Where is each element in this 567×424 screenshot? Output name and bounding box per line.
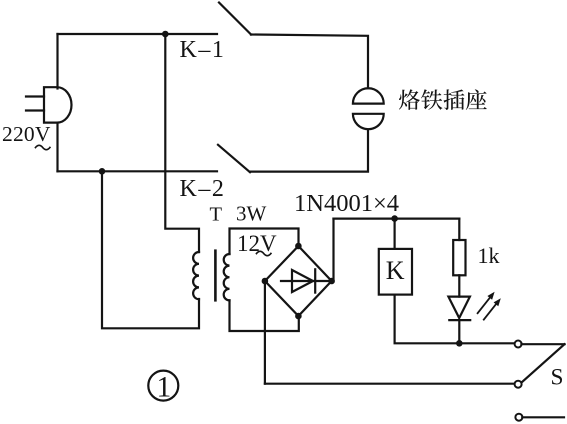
label 12V bbox=[237, 231, 277, 256]
resistor R1 1k body bbox=[453, 240, 465, 275]
transformer T core bbox=[214, 251, 217, 301]
bridge rectifier D1-D4 diamond bbox=[265, 246, 332, 316]
figure number circle 1 bbox=[148, 371, 178, 401]
wire S terminal 1 to pivot bbox=[521, 343, 564, 345]
svg-text:3W: 3W bbox=[236, 202, 267, 226]
switch K-1 blade bbox=[219, 3, 251, 35]
wire secondary bottom to bridge AC bottom bbox=[230, 300, 299, 331]
bridge inner diode triangle bbox=[292, 270, 313, 292]
bridge inner diode cathode bar bbox=[314, 269, 316, 292]
LED VD cathode bar bbox=[449, 319, 470, 321]
svg-text:K: K bbox=[386, 256, 405, 285]
node bridge bottom bbox=[295, 313, 302, 320]
wire plug bottom to bottom AC rail bbox=[56, 123, 58, 172]
relay coil K box bbox=[379, 249, 412, 295]
wire top junction to transformer primary top bbox=[165, 34, 199, 252]
junction node bottom rail bbox=[99, 168, 106, 175]
tilde under 12V bbox=[257, 251, 271, 255]
wire bottom junction to transformer primary bottom bbox=[102, 171, 199, 328]
wire bridge DC plus riser bbox=[332, 219, 334, 280]
LED emission arrow 2 bbox=[484, 303, 497, 320]
plug P1 prong upper bbox=[26, 95, 44, 97]
wire S terminal 3 stub bbox=[522, 416, 564, 418]
switch S terminal 1 (common) bbox=[515, 341, 522, 348]
plug P1 prong lower bbox=[26, 109, 44, 111]
label 1N4001x4 bbox=[294, 190, 399, 217]
LED emission arrow 1 bbox=[478, 296, 491, 313]
socket XS lower half bbox=[353, 114, 384, 129]
label S bbox=[551, 364, 564, 390]
svg-text:T: T bbox=[210, 204, 223, 226]
wire DC plus rail to resistor bbox=[458, 219, 460, 240]
tilde under 220V bbox=[36, 145, 50, 149]
switch S blade bbox=[521, 344, 564, 382]
label 烙铁插座 bbox=[399, 89, 487, 110]
wire DC minus rail to switch S bbox=[265, 383, 515, 385]
label K-1 bbox=[180, 37, 226, 63]
LED VD triangle bbox=[448, 297, 470, 318]
switch S terminal 3 bbox=[515, 414, 522, 421]
label T bbox=[210, 204, 223, 226]
wire bottom AC rail bbox=[58, 170, 218, 172]
wire LED to junction bbox=[458, 320, 460, 343]
wire relay bottom to S common bbox=[395, 295, 515, 344]
svg-text:S: S bbox=[551, 364, 564, 390]
wire bridge DC minus down bbox=[264, 281, 266, 384]
transformer T primary winding bbox=[193, 252, 199, 299]
svg-text:220V: 220V bbox=[2, 122, 51, 146]
switch S terminal 2 bbox=[515, 381, 522, 388]
svg-text:1: 1 bbox=[157, 372, 172, 404]
node bridge top bbox=[295, 243, 302, 250]
wire secondary top to bridge AC top bbox=[230, 229, 299, 255]
label K bbox=[386, 256, 405, 285]
bridge inner diode line bbox=[281, 280, 330, 282]
label 3W bbox=[236, 202, 267, 226]
svg-text:K–2: K–2 bbox=[180, 176, 226, 202]
junction node LED bottom bbox=[456, 340, 463, 347]
label K-2 bbox=[180, 176, 226, 202]
wire DC plus top rail bbox=[334, 218, 460, 220]
svg-text:K–1: K–1 bbox=[180, 37, 226, 63]
label 220V bbox=[2, 122, 51, 146]
wire K-1 to socket top bbox=[251, 35, 368, 89]
label 1k bbox=[478, 243, 500, 268]
svg-text:1k: 1k bbox=[478, 243, 500, 268]
socket XS upper half bbox=[353, 88, 384, 103]
junction node top rail bbox=[162, 31, 169, 38]
svg-text:1N4001×4: 1N4001×4 bbox=[294, 190, 399, 217]
wire resistor to LED bbox=[458, 275, 460, 296]
wire junction to relay coil K bbox=[394, 219, 396, 249]
wire plug top to top AC rail bbox=[56, 34, 58, 89]
node bridge left bbox=[262, 278, 269, 285]
wire socket bottom to K-2 bbox=[250, 129, 368, 171]
wire top AC rail bbox=[58, 33, 218, 35]
plug P1 (mains plug body) bbox=[44, 87, 72, 122]
junction node DC plus at relay bbox=[391, 215, 398, 222]
node bridge right bbox=[328, 278, 335, 285]
transformer T secondary winding bbox=[224, 254, 230, 300]
switch K-2 blade bbox=[218, 145, 250, 172]
